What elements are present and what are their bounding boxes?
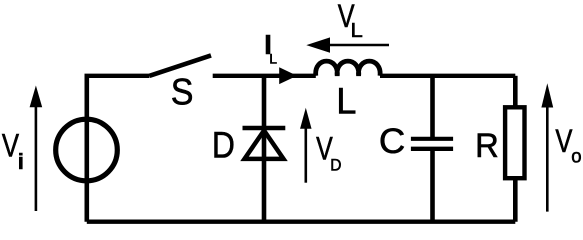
svg-text:o: o [571,146,581,168]
svg-text:R: R [475,127,499,165]
svg-text:C: C [379,121,405,161]
wire: top left segment to switch [85,74,150,78]
current arrow IL on wire [279,67,297,84]
svg-text:D: D [330,157,341,175]
arrow VD [304,125,307,183]
arrow Vi [35,103,38,211]
wire: top right segment from inductor to right branch [380,74,515,78]
switch S blade [150,55,212,75]
diode D triangle [245,131,284,159]
svg-text:L: L [351,19,363,42]
wire: bottom rail [87,219,516,223]
wire: capacitor branch bottom [430,149,435,222]
svg-text:D: D [212,124,235,166]
resistor R body [505,107,524,178]
wire: left vertical branch [85,76,90,222]
svg-text:L: L [336,80,356,121]
wire: diode branch vertical [262,76,267,222]
diode D cathode bar [243,126,286,131]
capacitor C top plate [411,137,453,141]
svg-text:i: i [18,149,24,174]
wire: top middle segment from switch to inductor [213,74,316,78]
wire: capacitor branch top [430,76,435,139]
arrow VL [327,44,389,47]
inductor L coil [316,61,380,76]
svg-text:S: S [171,71,194,113]
capacitor C bottom plate [411,147,453,151]
arrow Vo [546,103,549,212]
voltage source Vi circle [56,119,118,181]
wire: right branch below resistor [513,178,518,222]
svg-text:L: L [269,51,277,67]
wire: right branch above resistor [513,76,518,108]
